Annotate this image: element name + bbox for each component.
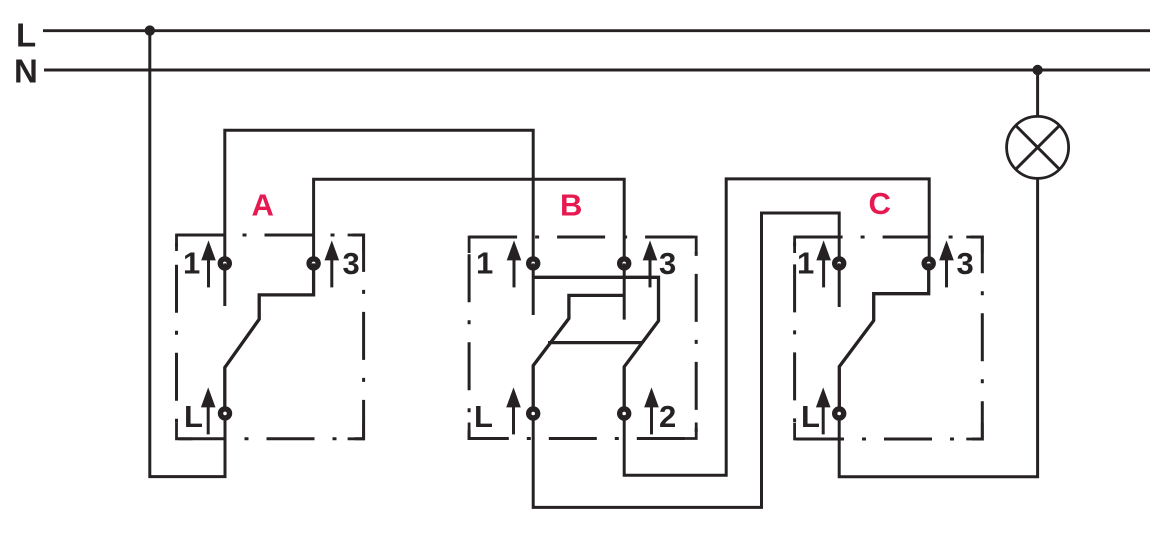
switch B terminal 1 arrow bbox=[507, 240, 522, 287]
switch C terminal 1 arrow bbox=[816, 240, 831, 287]
wire L rail to switch A terminal L bbox=[150, 31, 225, 477]
wire A terminal 1 to B terminal 1 bbox=[225, 130, 533, 263]
switch B terminal 3 arrow bbox=[643, 240, 658, 287]
switch C terminal L circle bbox=[835, 409, 844, 418]
svg-text:B: B bbox=[560, 188, 582, 223]
switch B terminal 1 contact stub bbox=[532, 263, 535, 315]
switch A enclosure corners bbox=[177, 235, 364, 439]
wire N rail to lamp bbox=[1036, 70, 1039, 117]
switch C lever (pole from 3 to L) bbox=[839, 263, 928, 413]
switch B lever coupling bar bbox=[548, 341, 642, 344]
svg-text:1: 1 bbox=[476, 246, 493, 281]
switch B terminal 2 circle bbox=[620, 409, 629, 418]
switch B terminal 2 arrow bbox=[644, 387, 659, 434]
switch A enclosure (dash-dot box) bbox=[177, 235, 364, 439]
switch A terminal 3 arrow bbox=[325, 240, 340, 287]
svg-text:1: 1 bbox=[183, 246, 200, 281]
switch A terminal 3 circle bbox=[309, 259, 318, 268]
svg-text:A: A bbox=[252, 188, 274, 223]
svg-text:1: 1 bbox=[797, 246, 814, 281]
switch A terminal L circle bbox=[221, 409, 230, 418]
svg-text:L: L bbox=[16, 17, 36, 54]
switch B terminal 3 circle bbox=[620, 259, 629, 268]
svg-text:3: 3 bbox=[957, 246, 974, 281]
net L rail bbox=[43, 29, 1150, 32]
switch B terminal L arrow bbox=[506, 387, 521, 434]
switch B terminal 3 contact stub bbox=[623, 263, 626, 319]
junction on N rail bbox=[1032, 65, 1042, 75]
net N rail bbox=[44, 69, 1150, 72]
switch C terminal 3 arrow bbox=[939, 240, 954, 287]
switch C enclosure (dash-dot box) bbox=[795, 237, 983, 439]
svg-text:N: N bbox=[14, 53, 38, 90]
switch A terminal L arrow bbox=[201, 387, 216, 434]
svg-text:L: L bbox=[184, 399, 203, 434]
switch A lever (pole from 3 to L) bbox=[225, 263, 314, 413]
lamp E1 bbox=[1007, 116, 1069, 178]
switch A terminal 1 arrow bbox=[201, 240, 216, 287]
wire A terminal 3 to B terminal 3 bbox=[314, 179, 625, 263]
switch C enclosure corners bbox=[795, 237, 983, 439]
wire B terminal L to C terminal 1 bbox=[533, 213, 839, 507]
svg-text:L: L bbox=[474, 399, 493, 434]
svg-text:2: 2 bbox=[659, 399, 676, 434]
switch C terminal 1 circle bbox=[835, 259, 844, 268]
switch C terminal 3 circle bbox=[924, 259, 933, 268]
svg-text:C: C bbox=[869, 186, 891, 221]
switch B enclosure (dash-dot box) bbox=[469, 237, 696, 439]
switch A terminal 1 contact stub bbox=[223, 263, 226, 306]
switch B left lever (3 to L) bbox=[533, 295, 624, 413]
switch B terminal 1 circle bbox=[529, 259, 538, 268]
switch C terminal 1 contact stub bbox=[838, 263, 841, 307]
svg-text:3: 3 bbox=[343, 246, 360, 281]
wire B terminal 2 to C terminal 3 bbox=[624, 179, 929, 475]
svg-text:3: 3 bbox=[659, 246, 676, 281]
switch C terminal L arrow bbox=[816, 387, 831, 434]
junction on L rail bbox=[145, 25, 155, 35]
switch B terminal L circle bbox=[529, 409, 538, 418]
switch B enclosure corners bbox=[469, 237, 696, 439]
switch B right lever (1 to 2) bbox=[533, 277, 658, 413]
wire C terminal L to lamp bbox=[839, 178, 1037, 477]
switch A terminal 1 circle bbox=[220, 259, 229, 268]
